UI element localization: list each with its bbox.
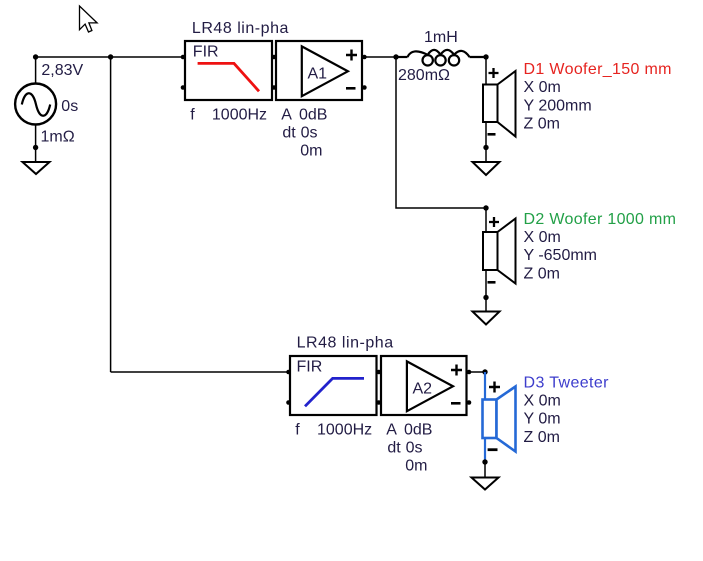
node source top (33, 54, 38, 59)
node D2 bottom (483, 295, 488, 300)
ground D3 (472, 478, 499, 490)
pin FIR2/A2 middle (377, 370, 382, 375)
svg-text:Y 200mm: Y 200mm (524, 97, 592, 114)
D3 plus (489, 382, 500, 393)
D1 plus (489, 68, 499, 78)
svg-text:X 0m: X 0m (524, 393, 561, 410)
wire D1 bottom (485, 122, 487, 162)
svg-text:A1: A1 (308, 66, 328, 83)
speaker D1 (483, 71, 516, 137)
D2 plus (489, 217, 499, 227)
svg-text:Z 0m: Z 0m (524, 116, 560, 133)
wire D2 bottom (485, 270, 487, 312)
wire branch vertical (110, 57, 112, 372)
svg-text:f: f (190, 106, 195, 123)
wire D3 drop blue (484, 372, 486, 400)
svg-text:0dB: 0dB (299, 106, 327, 123)
pin A2 right (467, 370, 472, 375)
A2 plus (451, 365, 462, 376)
svg-text:280mΩ: 280mΩ (398, 67, 450, 84)
svg-text:f: f (295, 421, 300, 438)
A2 minus (451, 402, 461, 405)
wire D3 bottom blue (484, 438, 486, 462)
node D3 top (482, 369, 487, 374)
svg-text:A2: A2 (413, 381, 433, 398)
node source bottom (33, 145, 38, 150)
FIR1 lowpass curve (198, 63, 259, 91)
pin FIR2 left (286, 370, 291, 375)
A1 plus (346, 50, 357, 61)
svg-text:D2 Woofer 1000 mm: D2 Woofer 1000 mm (524, 211, 677, 228)
D1 minus (488, 133, 496, 136)
svg-text:0s: 0s (406, 440, 423, 457)
svg-text:0m: 0m (300, 143, 322, 160)
svg-text:A: A (281, 106, 292, 123)
svg-text:X 0m: X 0m (524, 79, 561, 96)
node D2 top (483, 205, 488, 210)
D3 minus (488, 448, 498, 451)
svg-text:0m: 0m (405, 458, 427, 475)
svg-text:LR48 lin-pha: LR48 lin-pha (192, 20, 289, 37)
svg-text:1000Hz: 1000Hz (212, 106, 267, 123)
node A1 output (393, 54, 398, 59)
wire main net top (36, 56, 183, 58)
svg-text:D1 Woofer_150 mm: D1 Woofer_150 mm (524, 61, 672, 78)
pin FIR1 left (181, 55, 186, 60)
pin FIR1/A1 middle (272, 55, 277, 60)
node D1 bottom (483, 145, 488, 150)
svg-text:D3 Tweeter: D3 Tweeter (524, 374, 610, 391)
wire source bottom (35, 125, 37, 162)
ground D1 (473, 162, 500, 175)
wire branch horizontal (111, 371, 289, 373)
svg-text:Y -650mm: Y -650mm (524, 247, 598, 264)
svg-text:X 0m: X 0m (524, 229, 561, 246)
wire D3 ground stub (484, 462, 486, 478)
mouse cursor (80, 6, 98, 32)
wire D1 drop (485, 57, 487, 85)
pin A1 right (362, 55, 367, 60)
A1 minus (346, 87, 356, 90)
wire A2 output (467, 371, 486, 373)
svg-text:1mΩ: 1mΩ (41, 129, 75, 146)
inductor L1 1mH (396, 50, 486, 66)
ground source (23, 162, 50, 174)
svg-text:1000Hz: 1000Hz (317, 421, 372, 438)
filter FIR1 (185, 41, 272, 100)
op-amp A1 (276, 41, 362, 100)
node D3 bottom (482, 459, 487, 464)
node branch tap (108, 54, 113, 59)
svg-text:Z 0m: Z 0m (524, 265, 560, 282)
wire A1 output (364, 56, 396, 58)
ground D2 (473, 312, 500, 325)
voltage source V1 (15, 84, 56, 125)
svg-text:2,83V: 2,83V (41, 62, 83, 79)
svg-text:1mH: 1mH (424, 29, 458, 46)
node inductor right (483, 54, 488, 59)
svg-text:Z 0m: Z 0m (524, 429, 560, 446)
svg-text:dt: dt (282, 125, 296, 142)
FIR2 highpass curve (305, 378, 364, 406)
svg-text:LR48 lin-pha: LR48 lin-pha (297, 335, 394, 352)
svg-text:0s: 0s (61, 98, 78, 115)
svg-text:0dB: 0dB (404, 421, 432, 438)
op-amp A2 (381, 356, 467, 415)
svg-text:A: A (386, 421, 397, 438)
svg-text:Y 0m: Y 0m (524, 411, 561, 428)
wire source top (35, 57, 37, 83)
svg-text:FIR: FIR (297, 359, 323, 376)
D2 minus (488, 281, 496, 284)
svg-text:FIR: FIR (193, 44, 219, 61)
svg-text:dt: dt (387, 440, 401, 457)
speaker D3 (483, 387, 516, 452)
speaker D2 (483, 219, 516, 284)
wire D2 branch (396, 57, 486, 208)
filter FIR2 (290, 356, 377, 415)
wire D2 drop (485, 208, 487, 232)
svg-text:0s: 0s (301, 125, 318, 142)
